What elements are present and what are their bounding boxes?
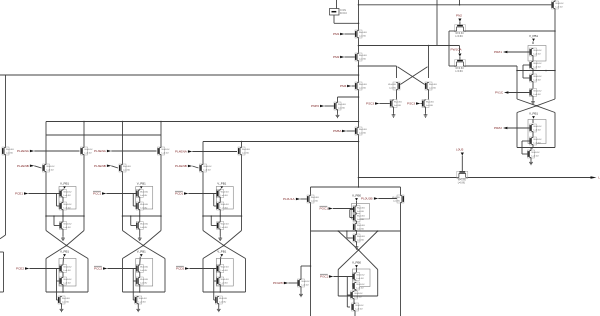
transistor MB2 bbox=[353, 214, 365, 222]
svg-text:L=0.6U: L=0.6U bbox=[221, 227, 229, 229]
junction bbox=[45, 215, 47, 217]
wire envelope bbox=[87, 259, 89, 293]
wire bbox=[554, 31, 556, 99]
wire gate jog bbox=[347, 231, 353, 238]
svg-text:L=0.6U: L=0.6U bbox=[429, 87, 437, 89]
svg-text:W=0.6U: W=0.6U bbox=[139, 298, 147, 300]
port label PN2 bbox=[456, 14, 462, 22]
wire bbox=[28, 193, 59, 195]
svg-text:IC=0.0: IC=0.0 bbox=[340, 13, 348, 15]
transistor MSC3R bbox=[422, 100, 434, 108]
transistor PFGPD bbox=[298, 279, 310, 287]
junction bbox=[241, 141, 243, 143]
wire envelope bbox=[46, 291, 88, 293]
svg-text:PL4ENA: PL4ENA bbox=[175, 150, 188, 154]
wire bbox=[531, 145, 533, 150]
transistor MB3 bbox=[353, 223, 365, 231]
wire bbox=[218, 304, 220, 308]
wire bbox=[219, 273, 221, 278]
svg-text:W=0.6U: W=0.6U bbox=[140, 204, 148, 206]
svg-text:L=0.6U: L=0.6U bbox=[161, 152, 169, 154]
wire bbox=[139, 285, 141, 292]
wire gate jog bbox=[57, 269, 60, 282]
transistor MRZ2 bbox=[530, 124, 542, 132]
svg-text:W=0.6U: W=0.6U bbox=[429, 84, 437, 86]
svg-text:W=0.6U: W=0.6U bbox=[221, 192, 229, 194]
junction bbox=[532, 70, 534, 72]
wire bbox=[356, 222, 358, 224]
svg-text:V_PB0: V_PB0 bbox=[352, 194, 361, 198]
svg-text:W=0.6U: W=0.6U bbox=[311, 197, 319, 199]
svg-text:L=0.6U: L=0.6U bbox=[63, 195, 71, 197]
wire gate jog bbox=[131, 216, 137, 226]
port label PL3ENB bbox=[94, 164, 111, 168]
transistor M3C5 bbox=[217, 277, 229, 285]
svg-text:PV1C: PV1C bbox=[495, 91, 504, 95]
junction bbox=[358, 249, 360, 251]
transistor M2C3 bbox=[136, 222, 148, 230]
port label PGC2 bbox=[320, 274, 333, 279]
wire bbox=[189, 268, 216, 270]
transistor M1C6 bbox=[58, 296, 70, 304]
wire bbox=[219, 188, 222, 191]
svg-text:V_PB1: V_PB1 bbox=[529, 34, 538, 38]
wire envelope bbox=[245, 259, 247, 293]
wire bbox=[344, 56, 355, 58]
wire bbox=[62, 230, 64, 237]
junction bbox=[377, 230, 379, 232]
wire bowtie bbox=[338, 250, 378, 270]
wire envelope bbox=[337, 270, 339, 297]
wire bbox=[532, 69, 534, 74]
wire bbox=[356, 201, 358, 206]
wire bbox=[459, 22, 461, 25]
wire bbox=[139, 273, 141, 278]
svg-text:PL4ENB: PL4ENB bbox=[175, 164, 187, 168]
wire gate jog bbox=[523, 65, 530, 78]
svg-text:L=0.6U: L=0.6U bbox=[357, 219, 365, 221]
svg-text:W=0.6U: W=0.6U bbox=[531, 152, 539, 154]
transistor PM1 bbox=[355, 30, 367, 38]
wire bbox=[532, 56, 534, 61]
wire bbox=[459, 46, 461, 54]
svg-text:V_PB1: V_PB1 bbox=[137, 182, 146, 186]
junction bbox=[139, 215, 141, 217]
wire rail mid bbox=[203, 215, 242, 217]
junction bbox=[62, 291, 64, 293]
svg-text:PRZ2: PRZ2 bbox=[494, 126, 502, 130]
wire rail mid bbox=[46, 215, 84, 217]
svg-text:L=0.6U: L=0.6U bbox=[533, 94, 541, 96]
svg-text:L=0.6U: L=0.6U bbox=[533, 66, 541, 68]
net long wire bbox=[0, 74, 359, 76]
transistor PV1C bbox=[530, 89, 542, 97]
junction bbox=[516, 70, 518, 72]
transistor M2C6 bbox=[135, 296, 147, 304]
svg-text:L=0.6U: L=0.6U bbox=[393, 200, 401, 202]
wire rail bbox=[311, 230, 401, 232]
svg-text:L=0.6U: L=0.6U bbox=[356, 278, 364, 280]
wire bbox=[62, 285, 64, 292]
wire bbox=[554, 113, 556, 148]
svg-text:L=0.6U: L=0.6U bbox=[63, 270, 71, 272]
transistor MLATCH-L bbox=[388, 82, 400, 90]
wire envelope bbox=[123, 291, 166, 293]
svg-text:W=0.6U: W=0.6U bbox=[221, 224, 229, 226]
svg-text:W=0.6U: W=0.6U bbox=[359, 32, 367, 34]
svg-text:PSC3: PSC3 bbox=[407, 102, 415, 106]
wire bbox=[459, 57, 461, 60]
port label PCE1 bbox=[15, 192, 28, 196]
wire bbox=[62, 216, 64, 222]
wire bbox=[507, 51, 529, 53]
wire cross-couple bbox=[400, 67, 427, 85]
wire gate jog bbox=[214, 194, 217, 207]
svg-text:W=0.6U: W=0.6U bbox=[533, 91, 541, 93]
ground bbox=[60, 308, 64, 312]
cell box XB2 bbox=[353, 269, 371, 287]
svg-text:W=0.6U: W=0.6U bbox=[357, 216, 365, 218]
wire bbox=[62, 188, 65, 191]
junction bbox=[223, 245, 225, 247]
transistor M1C2 bbox=[60, 202, 72, 210]
cell label V_PB1 bbox=[217, 182, 226, 189]
junction bbox=[358, 177, 360, 179]
wire envelope bbox=[377, 270, 379, 297]
svg-text:L=0.6U: L=0.6U bbox=[357, 239, 365, 241]
transistor MB7 bbox=[351, 291, 363, 299]
svg-text:W=0.6U: W=0.6U bbox=[338, 104, 346, 106]
wire envelope bbox=[338, 295, 378, 297]
svg-text:W=0.6U: W=0.6U bbox=[359, 129, 367, 131]
wire bbox=[192, 151, 237, 153]
svg-text:L=0.6U: L=0.6U bbox=[139, 301, 147, 303]
cell box clipped bbox=[0, 252, 4, 292]
wire bbox=[139, 257, 142, 265]
svg-text:W=0.6U: W=0.6U bbox=[221, 267, 229, 269]
wire bbox=[425, 108, 427, 114]
port label PCC1 bbox=[93, 191, 106, 196]
svg-text:PGC2: PGC2 bbox=[320, 275, 329, 279]
port label PW1CA bbox=[451, 48, 463, 57]
svg-text:L=0.6U: L=0.6U bbox=[221, 207, 229, 209]
wire rail right b2 bbox=[160, 122, 162, 231]
wire bbox=[324, 105, 334, 107]
svg-text:L=0.6U: L=0.6U bbox=[140, 195, 148, 197]
junction bbox=[459, 4, 461, 6]
svg-text:W=0.6U: W=0.6U bbox=[63, 224, 71, 226]
svg-text:W=0.6U: W=0.6U bbox=[355, 305, 363, 307]
ground bbox=[136, 308, 140, 312]
junction bbox=[66, 245, 68, 247]
junction bbox=[219, 215, 221, 217]
wire bbox=[466, 30, 556, 32]
wire bbox=[354, 311, 356, 316]
svg-text:W=0.6U: W=0.6U bbox=[301, 281, 309, 283]
wire bbox=[111, 166, 118, 168]
wire bbox=[356, 268, 358, 272]
port label PL0U3B bbox=[361, 197, 378, 201]
cell label V_PB1 bbox=[60, 250, 69, 257]
wire gate jog bbox=[522, 141, 530, 154]
ground bbox=[218, 236, 222, 240]
transistor M3A bbox=[238, 147, 250, 155]
transistor MLATCH-R bbox=[425, 82, 437, 90]
junction bbox=[210, 215, 212, 217]
svg-text:L=0.6U: L=0.6U bbox=[221, 195, 229, 197]
svg-text:W=0.6U: W=0.6U bbox=[46, 166, 54, 168]
svg-text:W=0.6U: W=0.6U bbox=[455, 33, 464, 35]
cell box X21 bbox=[136, 187, 153, 210]
wire bbox=[139, 216, 141, 222]
wire bbox=[333, 276, 352, 278]
transistor PL0U1A bbox=[307, 195, 319, 203]
wire bbox=[0, 235, 6, 239]
junction bbox=[83, 121, 85, 123]
svg-text:W=0.6U: W=0.6U bbox=[533, 63, 541, 65]
junction bbox=[358, 121, 360, 123]
wire bbox=[517, 147, 555, 149]
svg-text:PL2ENB: PL2ENB bbox=[17, 164, 29, 168]
svg-text:W=0.6U: W=0.6U bbox=[221, 279, 229, 281]
wire bbox=[107, 268, 136, 270]
svg-text:W=0.6U: W=0.6U bbox=[356, 284, 364, 286]
wire bbox=[459, 0, 461, 5]
wire cross-couple bbox=[398, 67, 425, 85]
svg-text:L=0.6U: L=0.6U bbox=[140, 227, 148, 229]
transistor M3C1 bbox=[217, 190, 229, 198]
transistor M1C5 bbox=[60, 277, 72, 285]
svg-text:W=0.6U: W=0.6U bbox=[533, 139, 541, 141]
svg-text:W=0.6U: W=0.6U bbox=[356, 275, 364, 277]
wire bbox=[396, 90, 398, 100]
port label PCD1 bbox=[175, 191, 188, 196]
port label PSC3 bbox=[366, 102, 379, 106]
transistor MB1 bbox=[353, 206, 365, 214]
wire bbox=[219, 257, 222, 265]
transistor MRZ1 bbox=[530, 48, 542, 56]
port label PRZ1 bbox=[494, 50, 507, 54]
svg-text:W=0.6U: W=0.6U bbox=[63, 192, 71, 194]
wire rail left b2 bbox=[122, 122, 124, 231]
port label PV1C bbox=[495, 91, 508, 95]
svg-text:W=0.6U: W=0.6U bbox=[533, 50, 541, 52]
wire bowtie bbox=[517, 106, 555, 113]
wire bbox=[139, 210, 141, 216]
transistor M3C3 bbox=[217, 222, 229, 230]
wire bbox=[301, 265, 311, 267]
transistor M3C2 bbox=[217, 202, 229, 210]
wire bowtie bbox=[123, 246, 166, 259]
svg-text:C=1N: C=1N bbox=[340, 10, 346, 12]
wire bbox=[192, 166, 198, 168]
cell box X22 bbox=[136, 259, 153, 287]
wire rail right b3 bbox=[241, 142, 243, 231]
wire bbox=[532, 82, 534, 88]
transistor MSC3L bbox=[390, 100, 402, 108]
wire gate jog bbox=[54, 216, 60, 226]
svg-text:PM5A: PM5A bbox=[333, 129, 342, 133]
wire bbox=[29, 268, 59, 270]
capacitor C0 symbol bbox=[330, 9, 348, 16]
wire bbox=[356, 242, 358, 245]
wire bbox=[288, 282, 297, 284]
svg-text:V_PB1: V_PB1 bbox=[217, 182, 226, 186]
svg-text:W=0.6U: W=0.6U bbox=[354, 293, 362, 295]
svg-text:L=0.6U: L=0.6U bbox=[359, 58, 367, 60]
wire bbox=[300, 266, 302, 279]
svg-text:W=0.6U: W=0.6U bbox=[140, 279, 148, 281]
port label PRZ2 bbox=[494, 126, 507, 130]
transistor M2A bbox=[158, 147, 170, 155]
port label PL4ENA bbox=[175, 150, 192, 154]
svg-text:V_PB1: V_PB1 bbox=[60, 250, 69, 254]
wire bbox=[393, 108, 395, 114]
svg-text:PL3ENB: PL3ENB bbox=[94, 164, 106, 168]
port label PNP0 bbox=[311, 104, 324, 108]
ground bbox=[529, 161, 533, 165]
junction bbox=[554, 70, 556, 72]
svg-text:W=0.6U: W=0.6U bbox=[63, 267, 71, 269]
svg-text:W=0.6U: W=0.6U bbox=[357, 208, 365, 210]
net bus3 bbox=[203, 141, 359, 143]
svg-text:PGC1: PGC1 bbox=[320, 207, 329, 211]
junction bbox=[358, 23, 360, 25]
svg-text:W=0.6U: W=0.6U bbox=[84, 149, 92, 151]
svg-text:L=0.6U: L=0.6U bbox=[221, 270, 229, 272]
wire bbox=[62, 257, 65, 265]
ground bbox=[392, 113, 396, 117]
svg-text:PL0U1A: PL0U1A bbox=[283, 197, 295, 201]
wire bbox=[507, 127, 529, 129]
transistor M1B bbox=[43, 164, 55, 172]
junction bbox=[122, 215, 124, 217]
port label PGC1 bbox=[320, 206, 333, 211]
port label PM5A bbox=[333, 129, 346, 133]
svg-text:PL2ENA: PL2ENA bbox=[17, 149, 30, 153]
port label PL2ENA bbox=[17, 149, 34, 153]
cell box X32 bbox=[216, 259, 233, 287]
wire bowtie bbox=[123, 231, 162, 246]
wire bbox=[461, 156, 463, 172]
svg-text:PW1CA: PW1CA bbox=[451, 48, 463, 52]
svg-text:PRZ1: PRZ1 bbox=[494, 50, 502, 54]
wire bbox=[219, 210, 221, 216]
wire envelope bbox=[164, 259, 166, 293]
junction bbox=[53, 215, 55, 217]
wire bbox=[106, 193, 136, 195]
port label PCC2 bbox=[94, 266, 107, 271]
wire bbox=[333, 208, 353, 210]
wire bbox=[62, 210, 64, 216]
svg-text:L=0.6U: L=0.6U bbox=[140, 282, 148, 284]
svg-text:W=0.6U: W=0.6U bbox=[388, 84, 396, 86]
svg-text:W=0.6U: W=0.6U bbox=[63, 204, 71, 206]
cell box X12 bbox=[59, 259, 76, 287]
cell box U10 bbox=[528, 46, 546, 62]
wire bbox=[354, 299, 355, 303]
transistor M3B bbox=[200, 164, 212, 172]
wire bbox=[449, 65, 455, 67]
svg-text:W=0.6U: W=0.6U bbox=[426, 102, 434, 104]
svg-text:W=0.6U: W=0.6U bbox=[392, 197, 400, 199]
transistor M2C5 bbox=[136, 277, 148, 285]
svg-text:L=0.6U: L=0.6U bbox=[455, 71, 463, 73]
port label PM4 bbox=[340, 84, 351, 88]
port label PL0U1A bbox=[283, 197, 300, 201]
svg-text:L=0.6U: L=0.6U bbox=[219, 301, 227, 303]
svg-text:L=0.6U: L=0.6U bbox=[311, 200, 319, 202]
svg-text:W=0.6U: W=0.6U bbox=[458, 180, 467, 182]
transistor M0A bbox=[2, 147, 14, 155]
wire rail left b3 bbox=[202, 142, 204, 231]
transistor M2C1 bbox=[136, 190, 148, 198]
net trunk vertical bbox=[358, 0, 360, 187]
port label PL2ENB bbox=[17, 164, 34, 168]
svg-text:PNP0: PNP0 bbox=[311, 104, 319, 108]
svg-text:PCD2: PCD2 bbox=[176, 267, 185, 271]
svg-text:L=0.6U: L=0.6U bbox=[359, 132, 367, 134]
cell label V_PB1 bbox=[60, 182, 69, 189]
wire gate jog bbox=[347, 295, 350, 307]
port label PSC3 bbox=[407, 102, 420, 106]
wire bbox=[428, 90, 430, 100]
cell box X31 bbox=[216, 187, 233, 210]
junction bbox=[241, 215, 243, 217]
svg-text:W=0.6U: W=0.6U bbox=[219, 298, 227, 300]
wire envelope bbox=[203, 291, 246, 293]
wire bbox=[111, 150, 156, 152]
svg-text:L=0.6U: L=0.6U bbox=[63, 227, 71, 229]
svg-text:W=0.6U: W=0.6U bbox=[455, 68, 464, 70]
transistor L0U5 bbox=[457, 171, 468, 184]
junction bbox=[536, 105, 538, 107]
svg-text:L=0.6U: L=0.6U bbox=[555, 6, 563, 8]
transistor M1C1 bbox=[60, 190, 72, 198]
junction bbox=[358, 141, 360, 143]
svg-text:W=0.6U: W=0.6U bbox=[533, 126, 541, 128]
svg-text:V_PB1: V_PB1 bbox=[137, 250, 146, 254]
svg-text:L=0.6U: L=0.6U bbox=[46, 169, 54, 171]
cell label V_PB1 bbox=[137, 250, 146, 257]
wire gate jog bbox=[57, 281, 59, 300]
wire bbox=[449, 30, 455, 32]
wire bbox=[396, 66, 398, 78]
svg-text:PCE1: PCE1 bbox=[15, 192, 23, 196]
port label PFGPD bbox=[273, 281, 288, 285]
wire bowtie bbox=[338, 231, 378, 250]
transistor M2B bbox=[119, 164, 131, 172]
transistor MB5 bbox=[353, 273, 365, 281]
junction bbox=[358, 65, 360, 67]
svg-text:V_PB1: V_PB1 bbox=[529, 112, 538, 116]
wire bbox=[378, 198, 397, 200]
svg-text:PN2: PN2 bbox=[456, 14, 462, 18]
svg-text:W=0.6U: W=0.6U bbox=[6, 149, 14, 151]
svg-text:W=0.6U: W=0.6U bbox=[140, 192, 148, 194]
wire bbox=[532, 119, 534, 123]
svg-text:W=0.6U: W=0.6U bbox=[357, 236, 365, 238]
wire bbox=[336, 0, 338, 9]
transistor PN2 bbox=[455, 25, 466, 38]
wire gate jog bbox=[211, 216, 217, 226]
wire bbox=[300, 287, 302, 293]
cell label V_PB1 bbox=[529, 112, 538, 119]
wire bbox=[530, 158, 532, 161]
wire bbox=[532, 42, 534, 45]
svg-text:W=0.6U: W=0.6U bbox=[221, 204, 229, 206]
wire bbox=[554, 0, 556, 1]
